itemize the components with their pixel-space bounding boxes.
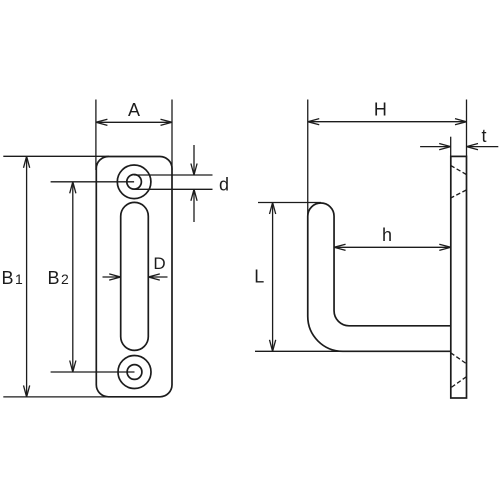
- slot (front view): [121, 202, 149, 350]
- dimension t arrow right: [467, 146, 499, 148]
- dimension B1 arrow line: [26, 156, 28, 397]
- dimension D arrow left: [103, 276, 121, 278]
- wall plate outline (side view): [451, 156, 467, 398]
- dimension L arrow line: [272, 203, 274, 352]
- svg-text:L: L: [254, 266, 264, 286]
- lower hole inner circle: [127, 365, 142, 380]
- dimension D arrow right: [148, 276, 167, 278]
- dimension d leader top: [134, 174, 212, 176]
- dimension H extension line right: [466, 100, 468, 157]
- dimension h arrow line: [334, 246, 451, 248]
- hook body outline (side view): [308, 203, 451, 351]
- dimension B2 extension line top: [51, 181, 135, 183]
- dimension L extension line top: [258, 202, 321, 204]
- dimension t extension line: [450, 137, 452, 157]
- dimension B2 arrow line: [72, 182, 74, 372]
- svg-text:t: t: [481, 126, 486, 146]
- plate outline (front view): [96, 157, 172, 397]
- upper hole inner circle: [127, 175, 142, 190]
- dimension A arrow line: [96, 121, 172, 123]
- dimension A extension line right: [171, 100, 173, 171]
- dimension d arrow upper: [193, 145, 195, 175]
- dimension L extension line bottom: [255, 350, 343, 352]
- svg-text:d: d: [219, 175, 229, 195]
- dimension d leader bottom: [135, 188, 213, 190]
- svg-text:A: A: [128, 100, 140, 120]
- lower hole outer circle: [118, 356, 151, 389]
- svg-text:B1: B1: [2, 268, 24, 288]
- wall plate break mark bottom: [451, 353, 467, 364]
- svg-text:h: h: [382, 225, 392, 245]
- wall plate break mark top: [451, 166, 467, 175]
- svg-text:D: D: [153, 254, 165, 273]
- dimension t arrow left: [420, 146, 451, 148]
- dimension H extension line left: [307, 100, 309, 218]
- dimension B2 extension line bottom: [51, 371, 135, 373]
- upper hole outer circle: [117, 165, 151, 199]
- dimension B1 extension line top: [3, 155, 109, 157]
- dimension B1 extension line bottom: [3, 396, 109, 398]
- dimension A extension line left: [95, 100, 97, 171]
- svg-text:H: H: [374, 100, 387, 120]
- dimension H arrow line: [308, 121, 467, 123]
- svg-text:B2: B2: [48, 268, 70, 288]
- dimension d arrow lower: [193, 189, 195, 222]
